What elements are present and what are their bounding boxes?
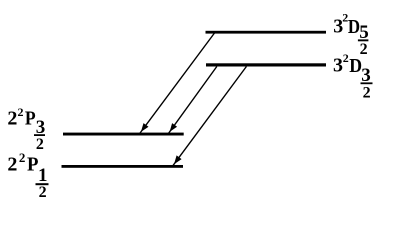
svg-text:2: 2: [7, 154, 17, 176]
label 3^2 D 5/2: [333, 10, 369, 58]
transition arrow 3D3/2 to 2P3/2: [168, 67, 216, 134]
svg-text:2: 2: [7, 108, 17, 130]
level line 3D5/2: [206, 31, 327, 34]
level line 2P1/2: [62, 165, 184, 168]
svg-text:3: 3: [333, 55, 343, 77]
svg-text:P: P: [27, 154, 39, 176]
svg-text:2: 2: [343, 51, 349, 65]
svg-text:1: 1: [38, 165, 48, 186]
svg-text:2: 2: [36, 136, 44, 153]
svg-text:2: 2: [39, 184, 47, 201]
svg-text:D: D: [349, 55, 362, 77]
transition arrow 3D5/2 to 2P3/2: [140, 33, 215, 134]
label 3^2 D 3/2: [333, 51, 373, 102]
level line 3D3/2: [206, 63, 326, 66]
svg-text:2: 2: [363, 85, 371, 102]
label 2^2 P 1/2: [7, 150, 48, 201]
svg-text:2: 2: [18, 105, 24, 119]
svg-text:P: P: [25, 108, 36, 130]
transition arrow 3D3/2 to 2P1/2: [173, 67, 247, 166]
svg-text:2: 2: [19, 150, 26, 165]
label 2^2 P 3/2: [7, 105, 45, 153]
level line 2P3/2: [63, 133, 184, 136]
